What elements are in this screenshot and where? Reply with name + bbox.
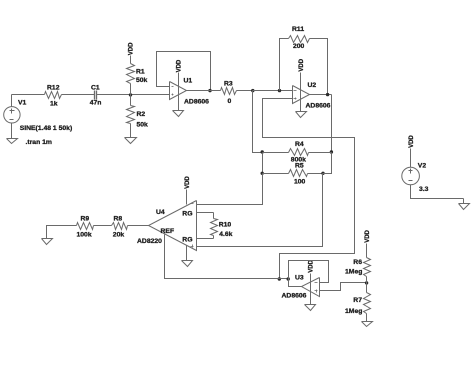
wire R4 right jog to R5 right xyxy=(323,153,332,174)
junction U3 output to REF xyxy=(287,277,290,280)
wire VDD to R6 xyxy=(366,244,368,258)
wire node B down to R4 left xyxy=(253,91,263,153)
wire R12 to C1 xyxy=(62,94,95,96)
wire V1 to R12 xyxy=(12,94,45,96)
svg-text:AD8606: AD8606 xyxy=(282,293,307,300)
wire R5 left node down to U4 negative input xyxy=(197,174,263,205)
voltage source V2 xyxy=(402,149,420,185)
svg-text:VDD: VDD xyxy=(177,59,183,72)
wire node A up to R1 xyxy=(130,84,132,95)
svg-text:0: 0 xyxy=(228,98,232,105)
resistor R12 xyxy=(45,92,62,99)
svg-text:.tran 1m: .tran 1m xyxy=(26,139,52,146)
svg-text:AD8220: AD8220 xyxy=(137,238,162,245)
wire U4 REF pin down xyxy=(165,235,289,279)
U1 VDD-VSS pin line xyxy=(178,73,180,111)
svg-text:R10: R10 xyxy=(219,221,232,228)
ground below R2 xyxy=(125,138,137,144)
ground at V2 xyxy=(459,199,470,210)
ground below V1 xyxy=(7,139,18,144)
ground at R9 left xyxy=(42,239,53,245)
voltage source V1 xyxy=(4,95,20,139)
resistor R7 xyxy=(364,283,371,322)
svg-text:REF: REF xyxy=(161,228,175,235)
junction R11 left leg xyxy=(278,89,281,92)
svg-text:3.3: 3.3 xyxy=(419,186,429,193)
node A junction xyxy=(129,93,132,96)
svg-text:SINE(1.48 1 50k): SINE(1.48 1 50k) xyxy=(20,125,73,132)
svg-text:R11: R11 xyxy=(292,26,304,33)
svg-text:AD8606: AD8606 xyxy=(184,98,209,105)
ground below U1 xyxy=(173,111,184,117)
svg-text:U2: U2 xyxy=(308,82,317,89)
ground below U4 xyxy=(182,261,193,267)
svg-text:AD8606: AD8606 xyxy=(306,102,331,109)
wire node B to U2 inverting input xyxy=(253,90,293,92)
wire U1 output to R3 xyxy=(187,90,221,92)
resistor R6 xyxy=(364,258,371,283)
svg-text:200: 200 xyxy=(293,43,305,50)
svg-text:VDD: VDD xyxy=(309,259,315,272)
wire U3 feedback loop xyxy=(289,261,329,287)
resistor R4 xyxy=(263,149,332,156)
svg-text:U3: U3 xyxy=(295,274,304,281)
svg-text:1Meg: 1Meg xyxy=(345,308,362,315)
wire node A down to R2 xyxy=(130,95,132,106)
svg-text:R6: R6 xyxy=(353,259,362,266)
resistor R9 xyxy=(77,223,94,230)
svg-text:R4: R4 xyxy=(295,141,304,148)
resistor R11 xyxy=(289,36,310,43)
ground below U2 xyxy=(296,112,307,118)
svg-text:V2: V2 xyxy=(418,163,427,170)
wire U2 output down to R4 xyxy=(331,95,333,153)
resistor R2 xyxy=(127,106,135,138)
junction R5 right xyxy=(321,172,324,175)
U3 VDD-VSS pin line xyxy=(310,274,312,305)
junction REF node xyxy=(278,277,281,280)
junction U2 output xyxy=(326,93,329,96)
wire R4 left down to R5 left xyxy=(262,153,264,174)
svg-text:U4: U4 xyxy=(156,209,165,216)
ground below R7 xyxy=(362,322,373,327)
svg-text:VDD: VDD xyxy=(409,135,415,148)
wire R11 right leg to U2 output xyxy=(310,39,328,95)
wire RG top pin xyxy=(197,212,214,214)
svg-text:VDD: VDD xyxy=(299,58,305,71)
U2 VDD-VSS pin line xyxy=(300,73,302,112)
wire R9 to R8 xyxy=(94,225,112,227)
wire U2 output xyxy=(310,94,332,96)
svg-text:R9: R9 xyxy=(81,215,90,222)
svg-text:C1: C1 xyxy=(91,84,100,91)
svg-text:47n: 47n xyxy=(90,99,102,106)
instrumentation amp U4 xyxy=(149,201,197,251)
junction R4 left xyxy=(261,150,264,153)
wire V2 to ground xyxy=(411,185,464,199)
svg-text:100: 100 xyxy=(294,179,306,186)
resistor R5 xyxy=(263,170,323,177)
svg-text:VDD: VDD xyxy=(129,42,135,55)
svg-text:V1: V1 xyxy=(18,100,27,107)
svg-text:20k: 20k xyxy=(113,232,125,239)
svg-text:4.6k: 4.6k xyxy=(219,231,232,238)
U4 VDD pin stub xyxy=(186,190,188,205)
svg-text:R1: R1 xyxy=(136,69,145,76)
svg-text:R5: R5 xyxy=(295,163,304,170)
wire U1 feedback loop xyxy=(157,52,211,91)
svg-text:100k: 100k xyxy=(77,232,92,239)
wire R3 to node B xyxy=(237,90,253,92)
svg-text:1Meg: 1Meg xyxy=(345,269,362,276)
junction R4 right xyxy=(330,150,333,153)
op-amp U2 xyxy=(293,86,310,104)
ground below U3 xyxy=(305,305,316,311)
U4 VSS pin stub xyxy=(186,246,188,261)
junction R5 left xyxy=(261,172,264,175)
svg-text:VDD: VDD xyxy=(365,229,371,242)
wire R8 to U4 output xyxy=(128,225,149,227)
node B junction xyxy=(251,89,254,92)
resistor R10 xyxy=(211,213,218,239)
wire R5 right down to U4 positive input xyxy=(197,174,323,247)
junction at U1 output xyxy=(208,89,211,92)
svg-text:RG: RG xyxy=(182,210,192,217)
svg-text:50k: 50k xyxy=(136,77,148,84)
junction R6 R7 midpoint xyxy=(365,281,368,284)
resistor R8 xyxy=(112,223,128,230)
svg-text:U1: U1 xyxy=(184,78,193,85)
svg-text:R2: R2 xyxy=(137,111,146,118)
wire C1 to node A and U1 noninverting input xyxy=(97,94,170,96)
svg-text:R7: R7 xyxy=(353,297,362,304)
op-amp U1 xyxy=(170,82,187,100)
resistor R3 xyxy=(221,88,237,95)
svg-text:VDD: VDD xyxy=(185,176,191,189)
svg-text:R8: R8 xyxy=(114,215,123,222)
resistor R1 xyxy=(127,56,135,84)
svg-text:50k: 50k xyxy=(137,121,149,128)
wire ground to R9 xyxy=(47,226,77,239)
svg-text:R3: R3 xyxy=(224,81,233,88)
svg-text:RG: RG xyxy=(182,237,192,244)
wire RG bottom pin xyxy=(197,238,214,240)
wire U2 noninverting input path xyxy=(263,99,355,279)
wire U3 noninverting input jog xyxy=(320,283,367,291)
svg-text:1k: 1k xyxy=(50,100,58,107)
op-amp U3 xyxy=(302,278,320,297)
capacitor C1 xyxy=(95,91,97,100)
wire R11 feedback loop left xyxy=(280,39,289,91)
svg-text:R12: R12 xyxy=(47,84,60,91)
